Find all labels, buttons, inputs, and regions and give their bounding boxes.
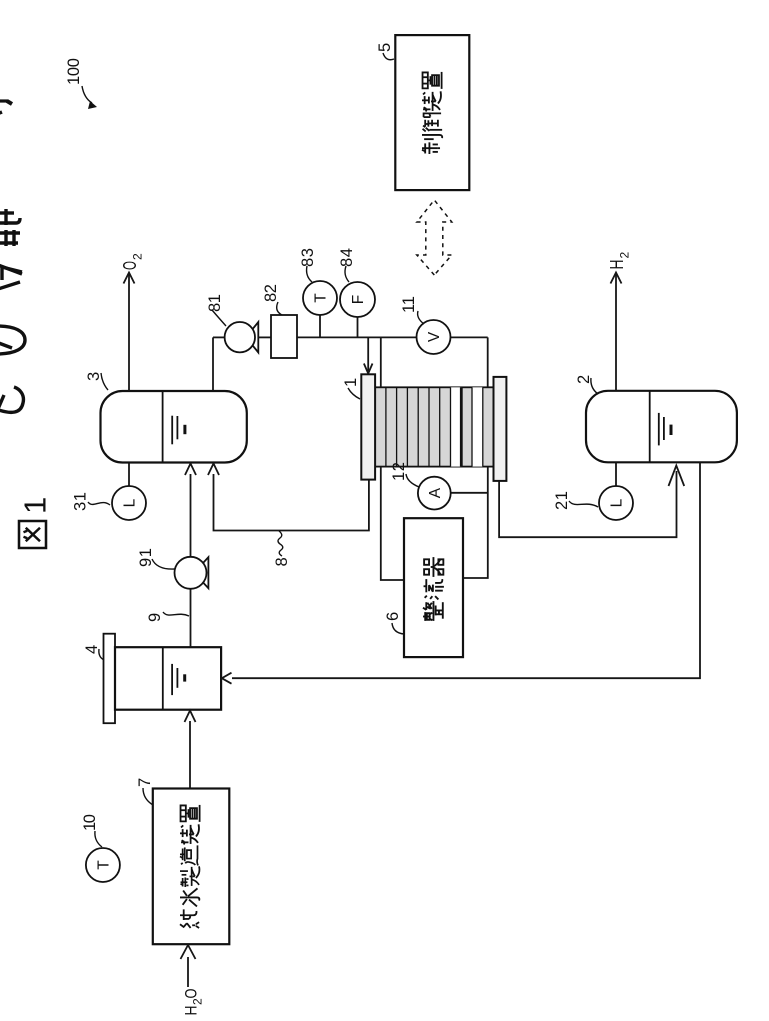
pipe pump 81 to component 82 (258, 336, 271, 338)
cropped header glyph 2 (kai) (0, 209, 20, 246)
control device box U5 (395, 35, 469, 190)
pipe component 82 down past sensors (297, 336, 488, 338)
leader for label 8 (278, 531, 283, 556)
wire stack to rectifier (negative) (463, 467, 488, 578)
arrowhead into tank 4 side (185, 711, 196, 723)
leader for label 10 (95, 831, 102, 847)
leader for label 31 (88, 502, 110, 505)
stack end plate (anode side) (361, 374, 375, 479)
svg-text:A: A (427, 487, 444, 498)
svg-text:2: 2 (131, 253, 145, 260)
stack cell separator lines (386, 387, 483, 466)
svg-text:3: 3 (85, 372, 103, 381)
arrowhead into tank 3 (208, 464, 219, 476)
svg-text:12: 12 (390, 462, 408, 481)
svg-text:83: 83 (299, 248, 317, 267)
leader for label 7 (143, 788, 153, 805)
arrowhead into tank 4 (222, 673, 232, 684)
arrowhead into box 7 (181, 945, 196, 959)
svg-text:T: T (96, 860, 113, 870)
arrowhead H2 outlet (611, 273, 622, 284)
svg-text:V: V (426, 331, 443, 342)
thermometer T83 (303, 281, 337, 315)
svg-text:O: O (120, 261, 140, 270)
tank 4 (pure water tank) (115, 647, 221, 710)
svg-text:F: F (350, 295, 367, 304)
dashed communication double-arrow (control link) (417, 200, 452, 275)
svg-text:100: 100 (65, 58, 83, 85)
svg-text:9: 9 (146, 613, 164, 622)
svg-text:T: T (313, 293, 330, 303)
svg-text:1: 1 (342, 378, 360, 387)
leader for label 2 (591, 378, 598, 394)
flow meter F84 (340, 282, 375, 317)
pipe 9 makeup water (tank4 via pump 91 to tank3) (190, 474, 192, 647)
tank 2 internal partition (649, 391, 651, 463)
stub to flow meter 84 (357, 317, 359, 337)
text seigyo-souchi (control device) (422, 135, 442, 154)
tank 2 (hydrogen gas-liquid separator) (586, 391, 737, 463)
svg-text:7: 7 (136, 778, 154, 787)
svg-text:2: 2 (618, 252, 632, 259)
svg-text:H: H (182, 1006, 201, 1016)
rectifier box U6 (404, 518, 463, 657)
leader for label 91 (152, 559, 175, 569)
pipe feed into stack top plate (367, 337, 369, 371)
leader for label 9 (163, 612, 189, 616)
pure water production device box U7 (153, 789, 230, 945)
pump 91 (194, 557, 208, 588)
level gauge L21 (599, 486, 633, 520)
arrowhead into stack (364, 364, 373, 374)
tank 2 liquid level mark (658, 413, 660, 446)
component 82 (heat exchanger box) (271, 315, 297, 358)
pipe drain (tank2 to tank4) (232, 462, 700, 678)
wire tank2 to level gauge 21 (615, 462, 617, 486)
svg-text:H: H (607, 260, 627, 270)
pipe box7 to tank4 (189, 721, 191, 789)
pipe tank3 outlet to pump 81 (212, 337, 214, 390)
svg-text:10: 10 (81, 814, 99, 831)
arrowhead into tank 2 (669, 466, 685, 487)
leader for label 4 (99, 649, 104, 660)
stub to thermometer 83 (319, 315, 321, 337)
arrowhead into tank 3 (185, 464, 196, 476)
cropped header glyph 1 (0, 101, 12, 114)
wire O2 outlet line (128, 273, 130, 391)
leader arrow for label 100 (82, 86, 92, 103)
leader for label 21 (569, 501, 598, 507)
thermometer T10 (86, 848, 120, 882)
wire H2 outlet line (615, 273, 617, 391)
svg-text:L: L (122, 498, 139, 507)
cropped header glyph 4 (no) (0, 326, 25, 354)
tank 4 liquid level mark (171, 664, 173, 695)
leader for label 11 (418, 311, 424, 324)
svg-text:6: 6 (384, 612, 402, 621)
wire stack to rectifier (positive) (381, 467, 404, 580)
tank 3 (oxygen gas-liquid separator) (101, 391, 247, 463)
svg-text:11: 11 (400, 296, 418, 313)
arrowhead O2 outlet (124, 273, 135, 284)
svg-text:81: 81 (206, 294, 224, 312)
electrolysis cell stack 1 body (375, 387, 493, 466)
leader for label 83 (307, 266, 312, 282)
tank 3 liquid level mark (171, 416, 173, 445)
svg-text:5: 5 (376, 43, 394, 52)
ammeter A12 (418, 477, 451, 510)
leader for label 6 (392, 623, 404, 634)
svg-text:84: 84 (338, 248, 356, 267)
pipe H2O inlet (187, 957, 189, 987)
tank 4 internal partition (162, 647, 164, 710)
leader for label 12 (406, 474, 419, 487)
svg-text:O: O (182, 989, 201, 999)
level gauge L31 (112, 486, 146, 520)
pipe return (stack to tank2) (499, 471, 676, 537)
leader for label 3 (101, 373, 108, 390)
stack thick separator plate (460, 387, 463, 466)
text junsui-seizo-souchi (pure water production device) (180, 909, 199, 928)
text seiryuki (rectifier) (423, 601, 443, 621)
leader for label 82 (277, 302, 282, 315)
tank 3 internal partition (162, 391, 164, 463)
voltmeter V11 (417, 320, 451, 354)
stub to ammeter 12 (451, 492, 488, 494)
svg-text:31: 31 (72, 492, 90, 511)
wire tank3 to level gauge 31 (128, 463, 130, 488)
svg-text:91: 91 (137, 548, 155, 567)
svg-text:1: 1 (18, 497, 53, 514)
cropped header glyph 5 (to) (0, 387, 23, 412)
pump 81 (246, 322, 258, 353)
svg-text:21: 21 (553, 491, 571, 510)
stack end plate (cathode side) (494, 377, 507, 481)
svg-text:8: 8 (273, 557, 291, 566)
leader for label 81 (212, 310, 226, 326)
cropped header glyph 3 (bun) (0, 265, 22, 289)
wire voltmeter taps (380, 337, 382, 387)
leader for label 1 (348, 388, 360, 399)
svg-text:L: L (609, 498, 626, 507)
tank 4 lid plate (104, 634, 116, 724)
figure label FIG.1 (zu) (19, 521, 46, 548)
svg-text:82: 82 (262, 284, 280, 302)
leader for label 5 (383, 53, 394, 60)
pipe 8 return (stack to tank3) (214, 474, 369, 531)
leader for label 84 (345, 266, 349, 282)
